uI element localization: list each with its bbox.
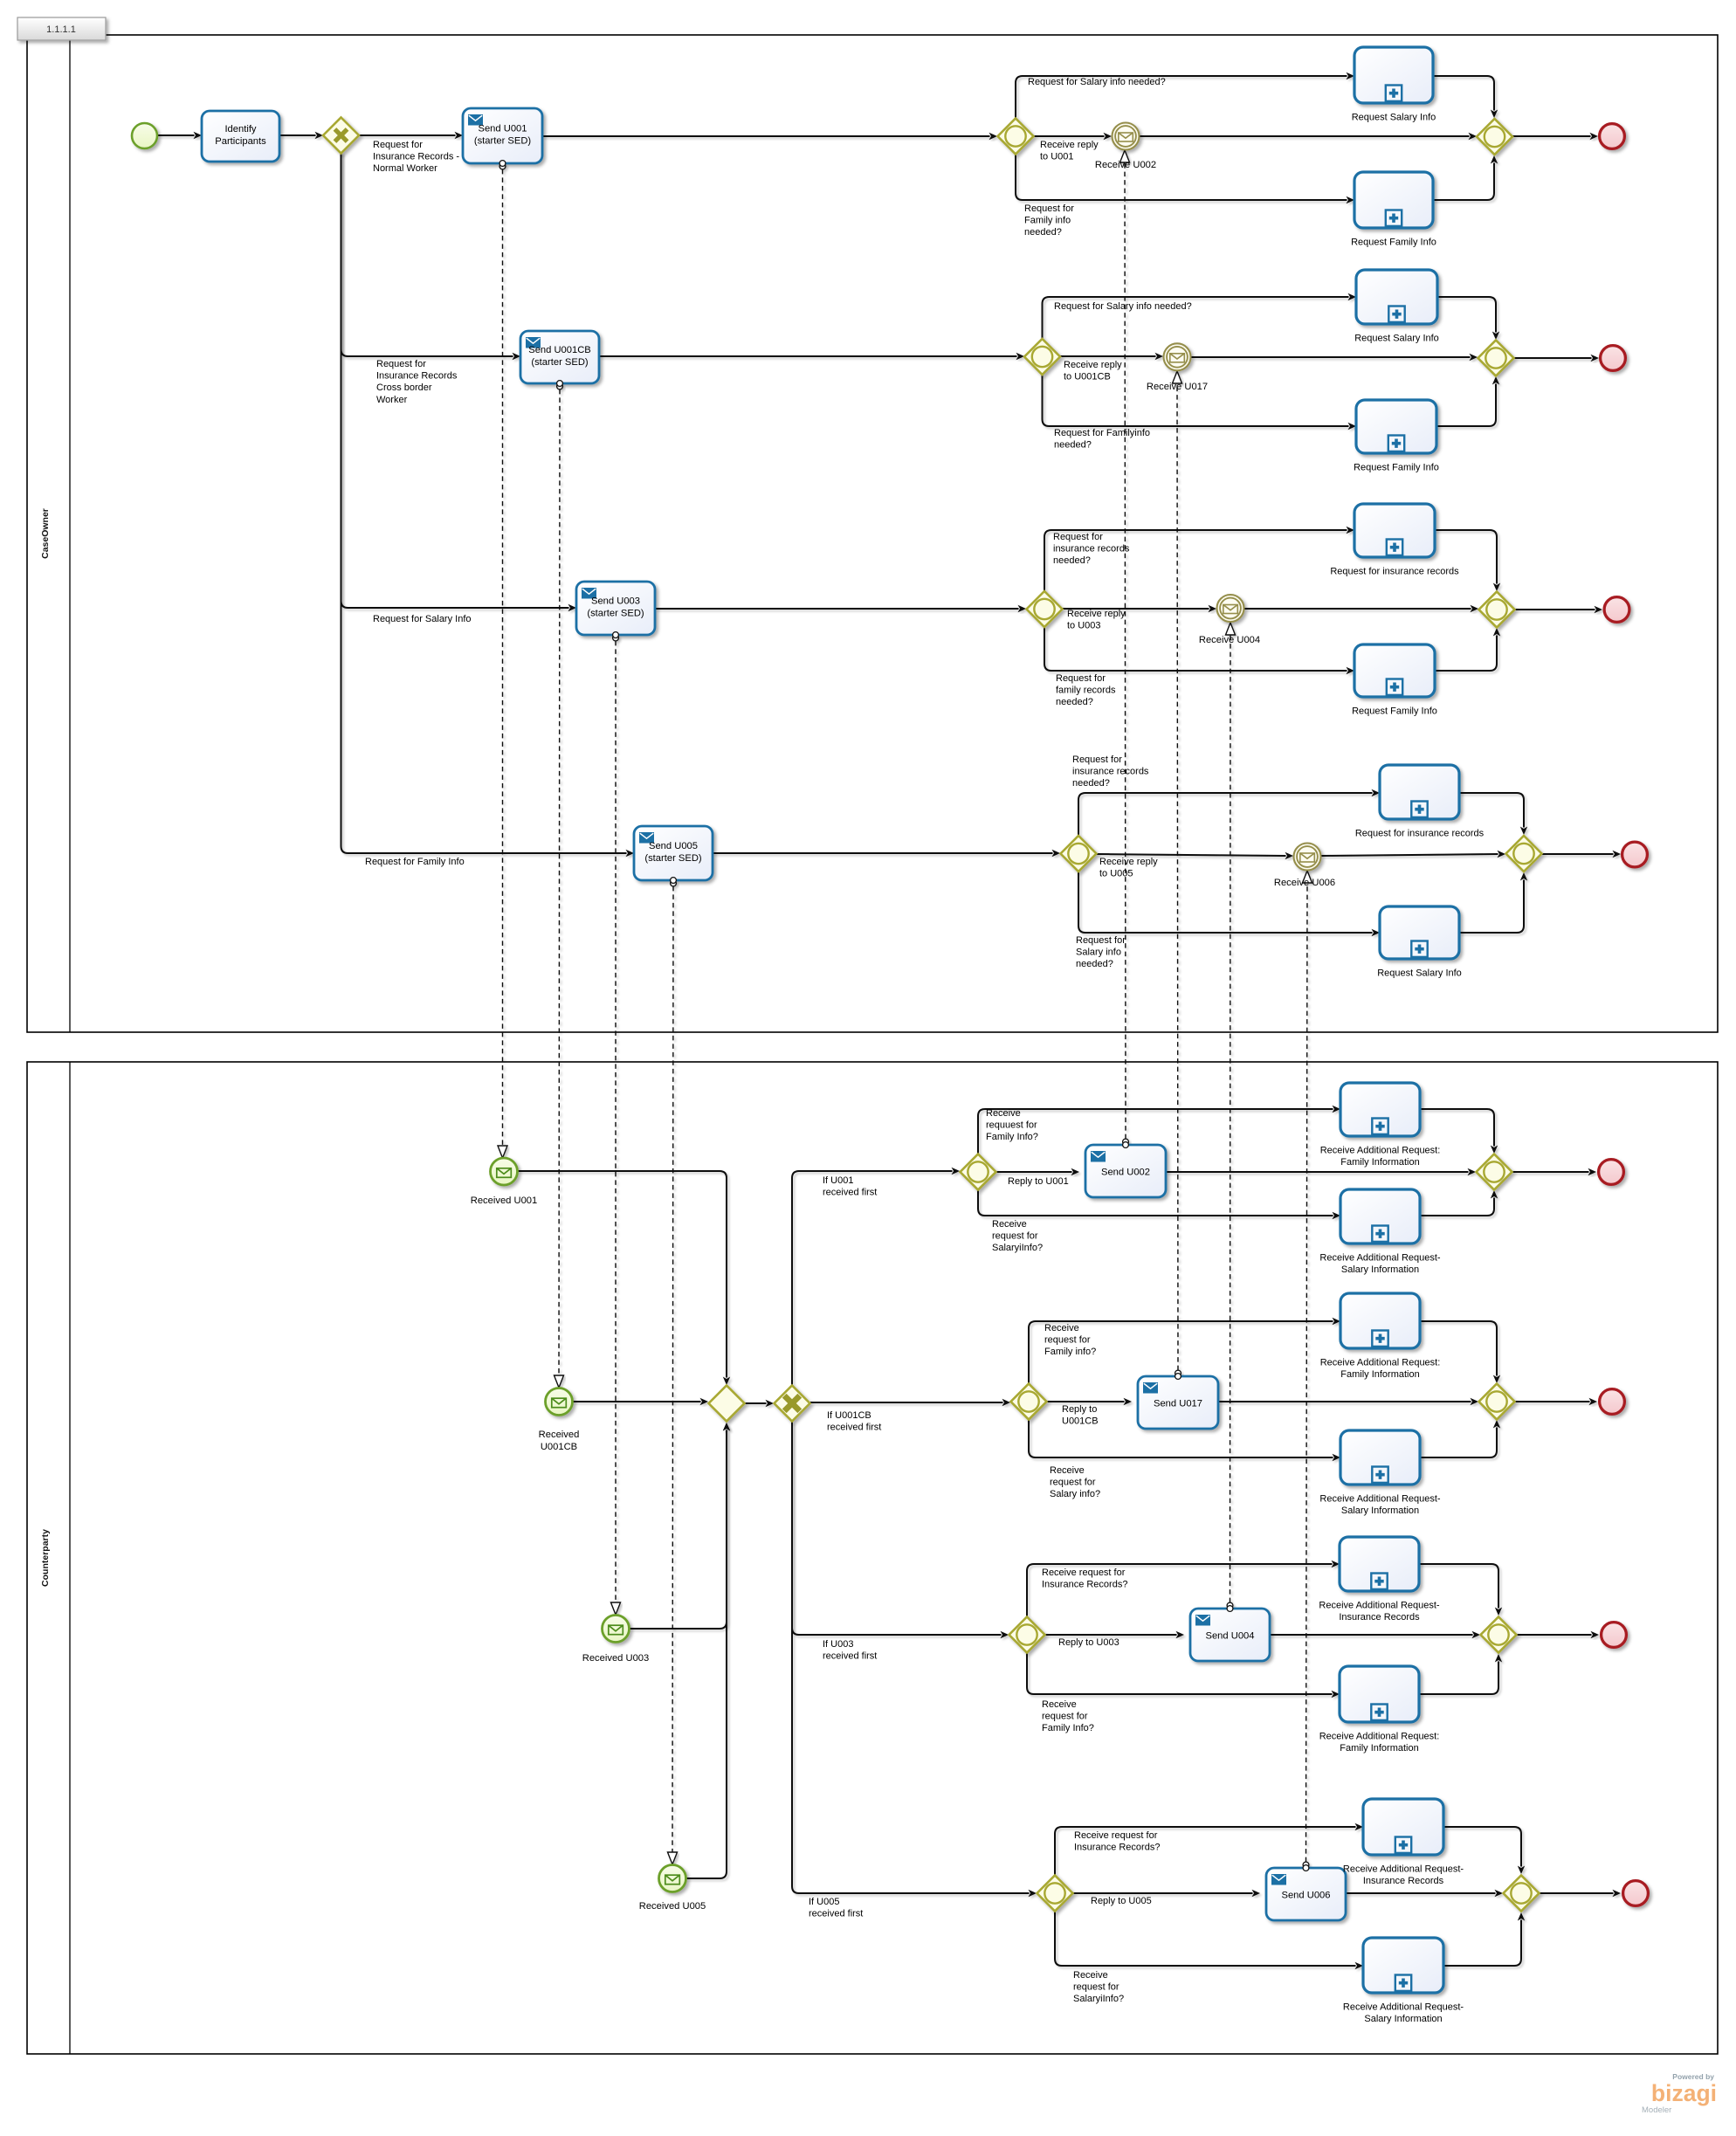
svg-text:Receive request for: Receive request for — [1042, 1568, 1126, 1578]
end event end b4 — [1623, 1881, 1649, 1906]
svg-text:Identify: Identify — [224, 124, 256, 134]
svg-text:Insurance Records: Insurance Records — [376, 371, 458, 382]
svg-text:Reply to U001: Reply to U001 — [1008, 1176, 1069, 1187]
sub-process Receive Additional Request Salary Information b4 — [1363, 1938, 1443, 1993]
svg-text:Family Information: Family Information — [1340, 1743, 1418, 1754]
svg-text:Salary info: Salary info — [1076, 947, 1121, 958]
svg-text:Receive U004: Receive U004 — [1199, 635, 1260, 645]
wire GE4 down branch — [1055, 1912, 1363, 1969]
wire gateway to Send U001 — [359, 132, 463, 139]
label Request for family records needed? row3 — [1056, 673, 1116, 707]
gateway merge b1 (o) — [1477, 1154, 1512, 1190]
wire branch Family info row1 — [1016, 155, 1354, 203]
svg-text:Request for: Request for — [1056, 673, 1106, 684]
svg-text:Receive: Receive — [986, 1108, 1021, 1119]
svg-text:U001CB: U001CB — [1062, 1416, 1099, 1427]
label If U003 received first — [823, 1639, 877, 1662]
svg-text:Salary Information: Salary Information — [1341, 1264, 1419, 1275]
svg-text:Family Information: Family Information — [1340, 1369, 1419, 1380]
svg-text:request for: request for — [1042, 1712, 1088, 1722]
label Request for Family Info — [365, 857, 465, 867]
sub-process Receive Additional Request Family Information b1 — [1340, 1083, 1420, 1136]
wire branch family row3 — [1044, 627, 1354, 674]
svg-text:to U001CB: to U001CB — [1064, 372, 1111, 382]
wire sub b3a to merge — [1419, 1564, 1502, 1616]
sub-process Request Family Info row1 — [1354, 172, 1433, 228]
wire branch insurance row3 — [1044, 527, 1354, 591]
wire Request Salary to merge row4 — [1459, 872, 1527, 933]
wire GE2 up branch — [1029, 1318, 1340, 1383]
wire merge row4 to end — [1542, 851, 1621, 858]
label Receive reply to U001 — [1040, 140, 1099, 162]
svg-text:Receive Additional Request-: Receive Additional Request- — [1319, 1253, 1441, 1264]
svg-text:Family info?: Family info? — [1044, 1347, 1096, 1357]
wire GE1 down branch — [978, 1190, 1340, 1219]
svg-text:Insurance Records?: Insurance Records? — [1042, 1580, 1127, 1590]
svg-text:Participants: Participants — [215, 136, 266, 147]
sub-process Request Salary Info row2 — [1356, 270, 1437, 324]
svg-text:Receive reply: Receive reply — [1099, 857, 1158, 867]
svg-text:needed?: needed? — [1072, 778, 1110, 789]
svg-text:Request Family Info: Request Family Info — [1351, 238, 1436, 248]
wire Send U001 to inclusive gateway — [542, 133, 997, 140]
svg-text:Received U005: Received U005 — [639, 1901, 706, 1912]
label Receive U002 — [1095, 160, 1156, 170]
svg-text:Modeler: Modeler — [1642, 2105, 1671, 2115]
svg-text:Receive: Receive — [992, 1219, 1027, 1230]
sub-process Request Family Info row3 — [1354, 644, 1435, 697]
svg-text:Receive Additional Request-: Receive Additional Request- — [1343, 2002, 1464, 2013]
wire Request insurance to merge row4 — [1459, 793, 1527, 835]
label Receive reply to U001CB — [1064, 360, 1122, 382]
wire GE4 up branch — [1055, 1823, 1363, 1875]
wire merge b2 to end — [1515, 1398, 1597, 1405]
svg-text:Request for Salary Info: Request for Salary Info — [373, 614, 472, 624]
svg-text:Request Salary Info: Request Salary Info — [1354, 334, 1439, 344]
wire sub b2b to merge — [1420, 1420, 1500, 1457]
svg-text:needed?: needed? — [1054, 440, 1092, 451]
wire exclusive to row2 event gateway — [810, 1399, 1010, 1406]
svg-text:Request Family Info: Request Family Info — [1352, 706, 1437, 717]
svg-text:Receive Additional Request:: Receive Additional Request: — [1319, 1732, 1440, 1742]
svg-text:SalaryiInfo?: SalaryiInfo? — [992, 1243, 1043, 1253]
wire Receive U017 to merge row2 — [1191, 354, 1478, 361]
label Request for Insurance Records - Normal Worker — [373, 140, 459, 174]
svg-text:Request Family Info: Request Family Info — [1354, 463, 1439, 473]
label for Request Salary Info row1 — [1352, 113, 1436, 123]
end event end b2 — [1600, 1389, 1625, 1415]
wire Request Salary Info to merge row1 — [1433, 76, 1498, 118]
message flow Send U017 to Receive U017 — [1173, 371, 1182, 1376]
svg-text:Request for Salary info needed: Request for Salary info needed? — [1054, 301, 1192, 312]
sub-process Request for insurance records row4 — [1380, 765, 1459, 819]
wire Send U004 to merge b3 — [1270, 1631, 1480, 1638]
wire Send U005 to inclusive gateway row4 — [713, 850, 1060, 857]
label Request for Salary info needed? row2 — [1054, 301, 1192, 312]
svg-text:Request for: Request for — [376, 359, 426, 369]
wire branch insurance row4 — [1078, 789, 1380, 836]
wire Send U006 to merge b4 — [1346, 1890, 1503, 1897]
wire merge row3 to end — [1515, 606, 1602, 613]
label Reply to U001CB — [1062, 1404, 1099, 1427]
label Request for insurance records needed? row3 — [1053, 532, 1130, 566]
label Received U001CB — [539, 1430, 580, 1452]
message start event Received U005 — [659, 1865, 686, 1892]
svg-text:received first: received first — [827, 1423, 881, 1433]
gateway inclusive row1 merge (o) — [1477, 119, 1512, 155]
label for Request for insurance records row4 — [1355, 829, 1485, 839]
sub-process Receive Additional Request Insurance Records b3 — [1340, 1537, 1419, 1591]
svg-text:If U005: If U005 — [809, 1897, 839, 1907]
gateway inclusive row2 split (o) — [1024, 339, 1060, 375]
svg-text:Salary info?: Salary info? — [1050, 1489, 1100, 1499]
svg-text:Request for insurance records: Request for insurance records — [1355, 829, 1485, 839]
label Receive request for Salary info? b2 — [1050, 1465, 1100, 1499]
wire gateway to Receive U017 — [1060, 353, 1163, 360]
svg-text:(starter SED): (starter SED) — [474, 136, 532, 147]
svg-text:to U005: to U005 — [1099, 869, 1133, 879]
sub-process Request for insurance records row3 — [1354, 504, 1435, 557]
wire merge row2 to end — [1514, 355, 1599, 362]
label Received U005 — [639, 1901, 706, 1912]
svg-text:Receive: Receive — [1042, 1699, 1077, 1710]
svg-text:Receive U002: Receive U002 — [1095, 160, 1156, 170]
svg-text:Receive U017: Receive U017 — [1147, 382, 1208, 392]
sub-process Request Family Info row2 — [1356, 400, 1436, 453]
svg-text:Normal Worker: Normal Worker — [373, 163, 437, 174]
label for Receive Additional Request Family Information b3 — [1319, 1732, 1440, 1754]
end event end row3 — [1604, 597, 1629, 623]
label Receive request for SalaryiInfo? b1 — [992, 1219, 1043, 1253]
svg-text:Request for: Request for — [1076, 935, 1126, 946]
wire sub b4a to merge — [1443, 1827, 1525, 1874]
svg-text:Receive: Receive — [1050, 1465, 1085, 1476]
gateway inclusive row4 split (o) — [1061, 836, 1097, 872]
diagram tab 1.1.1.1 — [17, 17, 106, 40]
end event end b3 — [1602, 1623, 1627, 1648]
svg-text:(starter SED): (starter SED) — [644, 853, 702, 864]
svg-text:Request Salary Info: Request Salary Info — [1352, 113, 1436, 123]
label Request for Salary info needed? row1 — [1028, 77, 1166, 87]
gateway merge b2 (o) — [1479, 1384, 1515, 1420]
sub-process Request Salary Info row4 — [1380, 906, 1459, 959]
svg-text:Insurance Records -: Insurance Records - — [373, 152, 459, 162]
message flow Send U003 to Received U003 — [611, 635, 621, 1615]
wire gateway to Send U001CB — [341, 153, 521, 360]
label Reply to U003 — [1058, 1637, 1119, 1648]
svg-text:needed?: needed? — [1056, 697, 1093, 707]
gateway GE2 (o) — [1011, 1384, 1047, 1420]
svg-text:Send U005: Send U005 — [649, 841, 698, 851]
svg-text:If U001: If U001 — [823, 1175, 853, 1186]
svg-text:received first: received first — [823, 1651, 877, 1662]
svg-text:Send U002: Send U002 — [1101, 1168, 1150, 1178]
svg-text:request for: request for — [1073, 1982, 1119, 1993]
label for Request Family Info row1 — [1351, 238, 1436, 248]
wire GE2 down branch — [1029, 1420, 1340, 1461]
svg-text:Insurance Records?: Insurance Records? — [1074, 1843, 1160, 1853]
svg-text:request for: request for — [1050, 1478, 1096, 1488]
bizagi logo — [1642, 2072, 1717, 2115]
svg-text:Family Information: Family Information — [1340, 1157, 1419, 1168]
gateway split GX1 (x) — [323, 118, 359, 154]
gateway inclusive row3 split (o) — [1027, 591, 1063, 627]
wire sub b4b to merge — [1443, 1912, 1525, 1966]
wire GE1 up branch — [978, 1106, 1340, 1154]
label for Receive Additional Request Family Information b1 — [1320, 1146, 1441, 1168]
svg-text:Receive Additional Request:: Receive Additional Request: — [1320, 1146, 1441, 1156]
wire sub b2a to merge — [1420, 1321, 1500, 1383]
label Request for Familyinfo needed? row2 — [1054, 428, 1150, 451]
wire GE3 to Send U004 — [1045, 1631, 1184, 1638]
wire Request Family Info to merge row1 — [1433, 155, 1498, 200]
task Send U001 (starter SED) — [463, 108, 542, 163]
message start event Received U001CB — [546, 1388, 573, 1416]
svg-text:needed?: needed? — [1053, 555, 1091, 566]
svg-text:(starter SED): (starter SED) — [531, 357, 589, 368]
task Send U017 — [1138, 1376, 1218, 1429]
message flow Send U006 to Receive U006 — [1303, 871, 1312, 1868]
wire merge b4 to end — [1540, 1890, 1621, 1897]
svg-text:Request for: Request for — [1024, 203, 1074, 214]
wire Identify Participants to split gateway — [279, 132, 323, 139]
svg-text:If U001CB: If U001CB — [827, 1410, 871, 1421]
svg-text:CaseOwner: CaseOwner — [40, 508, 51, 559]
wire gateway to Receive U006 — [1097, 852, 1293, 859]
label If U001CB received first — [827, 1410, 881, 1433]
wire GE1 to Send U002 — [996, 1168, 1079, 1175]
svg-text:Request for: Request for — [373, 140, 423, 150]
wire GE3 up branch — [1027, 1561, 1340, 1616]
svg-text:Insurance Records: Insurance Records — [1363, 1876, 1444, 1886]
label Request for insurance records needed? row4 — [1072, 754, 1149, 789]
svg-text:to U001: to U001 — [1040, 152, 1074, 162]
label Request for Salary info needed? row4 — [1076, 935, 1126, 969]
wire gateway to Send U005 — [341, 153, 635, 857]
label for Request for insurance records row3 — [1330, 567, 1459, 577]
label Receive U006 — [1274, 878, 1335, 888]
gateway inclusive row4 merge (o) — [1506, 836, 1542, 872]
wire Request insurance to merge row3 — [1435, 530, 1500, 591]
svg-text:Receive reply: Receive reply — [1040, 140, 1099, 150]
wire sub b1b to merge — [1420, 1190, 1498, 1216]
svg-text:insurance records: insurance records — [1072, 767, 1149, 777]
intermediate message event Receive U004 — [1217, 595, 1244, 622]
svg-text:Request Salary Info: Request Salary Info — [1377, 968, 1462, 979]
sub-process Receive Additional Request Insurance Records b4 — [1363, 1799, 1443, 1855]
wire branch salary row4 — [1078, 872, 1380, 936]
svg-text:Receive: Receive — [1073, 1970, 1108, 1981]
label Receive reply to U003 — [1067, 609, 1126, 631]
wire Request Family Info to merge row2 — [1436, 376, 1499, 426]
intermediate message event Receive U006 — [1294, 844, 1321, 871]
wire gateway to Receive U002 — [1034, 133, 1112, 140]
svg-text:Reply to U005: Reply to U005 — [1091, 1896, 1152, 1906]
label Receive reply to U005 — [1099, 857, 1158, 879]
sub-process Request Salary Info row1 — [1354, 47, 1433, 103]
wire Request Salary Info to merge row2 — [1437, 297, 1499, 340]
end event end row1 — [1600, 124, 1625, 149]
label for Request Family Info row2 — [1354, 463, 1439, 473]
sub-process Receive Additional Request Salary Information b2 — [1340, 1430, 1420, 1485]
gateway merge b3 (o) — [1481, 1617, 1517, 1653]
label Received U001 — [471, 1195, 538, 1206]
svg-text:Receive reply: Receive reply — [1064, 360, 1122, 370]
sub-process Receive Additional Request Family Information b3 — [1340, 1666, 1419, 1722]
wire exclusive to row4 event gateway — [792, 1422, 1037, 1897]
svg-text:Received U001: Received U001 — [471, 1195, 538, 1206]
svg-text:Request for insurance records: Request for insurance records — [1330, 567, 1459, 577]
svg-text:Receive Additional Request-: Receive Additional Request- — [1319, 1494, 1441, 1505]
label Receive request for Insurance Records? b4 — [1074, 1830, 1160, 1853]
pool Counterparty — [27, 1062, 1718, 2054]
label for Receive Additional Request Salary Information b2 — [1319, 1494, 1441, 1517]
svg-text:insurance records: insurance records — [1053, 544, 1130, 555]
end event end row4 — [1622, 842, 1648, 867]
svg-text:Family info: Family info — [1024, 216, 1071, 226]
task Send U002 — [1085, 1145, 1166, 1197]
svg-text:Cross border: Cross border — [376, 382, 432, 393]
svg-text:Receive reply: Receive reply — [1067, 609, 1126, 619]
label Received U003 — [582, 1653, 650, 1664]
svg-text:Send U001: Send U001 — [479, 124, 527, 134]
wire Send U002 to merge b1 — [1166, 1168, 1476, 1175]
label for Receive Additional Request Insurance Records b3 — [1319, 1601, 1440, 1623]
wire Send U001CB to inclusive gateway row2 — [599, 353, 1024, 360]
wire GE2 to Send U017 — [1047, 1398, 1132, 1405]
task Send U005 (starter SED) — [634, 826, 713, 880]
svg-text:received first: received first — [809, 1909, 863, 1919]
svg-text:Worker: Worker — [376, 395, 408, 405]
svg-text:Receive Additional Request-: Receive Additional Request- — [1343, 1864, 1464, 1875]
wire branch Family info row2 — [1043, 375, 1357, 430]
svg-text:requuest for: requuest for — [986, 1120, 1037, 1131]
wire GE4 to Send U006 — [1073, 1890, 1260, 1897]
wire sub b3b to merge — [1419, 1654, 1502, 1694]
task Send U006 — [1266, 1868, 1346, 1920]
sub-process Receive Additional Request Family Information b2 — [1340, 1293, 1420, 1348]
intermediate message event Receive U017 — [1164, 343, 1191, 370]
svg-text:Receive Additional Request-: Receive Additional Request- — [1319, 1601, 1440, 1611]
label Receive U004 — [1199, 635, 1260, 645]
svg-text:Receive request for: Receive request for — [1074, 1830, 1158, 1841]
svg-text:Received: Received — [539, 1430, 580, 1440]
wire Receive U004 to merge row3 — [1244, 605, 1478, 612]
wire sub b1a to merge — [1420, 1109, 1498, 1154]
svg-text:Counterparty: Counterparty — [40, 1529, 51, 1587]
label Receive request for SalaryiInfo? b4 — [1073, 1970, 1124, 2004]
gateway inclusive row3 merge (o) — [1479, 592, 1515, 628]
task Send U001CB (starter SED) — [520, 331, 599, 383]
wire gateway to Send U003 — [341, 153, 577, 611]
message flow Send U001CB to Received U001CB — [555, 383, 564, 1388]
wire Request Family to merge row3 — [1435, 628, 1500, 671]
svg-text:Send U003: Send U003 — [591, 596, 640, 607]
svg-text:U001CB: U001CB — [541, 1442, 577, 1452]
svg-text:Insurance Records: Insurance Records — [1339, 1612, 1420, 1623]
svg-text:Send U004: Send U004 — [1206, 1631, 1255, 1642]
svg-text:request for: request for — [992, 1231, 1038, 1242]
wire gateway to Receive U004 — [1063, 605, 1216, 612]
svg-text:Send U001CB: Send U001CB — [528, 345, 591, 355]
label Receive request for Family Info? b3 — [1042, 1699, 1094, 1733]
gateway inclusive row1 split (o) — [998, 119, 1034, 155]
label for Receive Additional Request Salary Information b1 — [1319, 1253, 1441, 1276]
label Receive U017 — [1147, 382, 1208, 392]
label for Receive Additional Request Salary Information b4 — [1343, 2002, 1464, 2025]
wire merge row1 to end — [1512, 133, 1598, 140]
wire start to Identify Participants — [157, 132, 202, 139]
svg-text:Receive: Receive — [1044, 1323, 1079, 1333]
wire Send U017 to merge b2 — [1218, 1398, 1478, 1405]
wire Received U001 to merge gateway — [518, 1171, 730, 1385]
svg-text:Reply to: Reply to — [1062, 1404, 1097, 1415]
gateway GE4 (o) — [1037, 1876, 1073, 1912]
message start event Received U001 — [491, 1158, 518, 1185]
svg-text:Request for Family Info: Request for Family Info — [365, 857, 465, 867]
gateway GE1 (o) — [961, 1154, 996, 1190]
wire merge b3 to end — [1517, 1631, 1599, 1638]
label for Request Salary Info row2 — [1354, 334, 1439, 344]
label Request for Insurance Records Cross border Worker — [376, 359, 458, 405]
message start event Received U003 — [603, 1616, 630, 1643]
svg-text:Request for: Request for — [1053, 532, 1103, 542]
svg-text:Request for Salary info needed: Request for Salary info needed? — [1028, 77, 1166, 87]
svg-text:Received U003: Received U003 — [582, 1653, 650, 1664]
sub-process Receive Additional Request Salary Information b1 — [1340, 1189, 1420, 1244]
label Receive requuest for Family Info? — [986, 1108, 1038, 1142]
message flow Send U005 to Received U005 — [668, 880, 678, 1864]
label Receive request for Family info? b2 — [1044, 1323, 1096, 1357]
label for Receive Additional Request Family Information b2 — [1320, 1358, 1441, 1381]
gateway merge b4 (o) — [1504, 1876, 1540, 1912]
wire GE3 down branch — [1027, 1653, 1340, 1698]
wire Received U003 to merge gateway — [630, 1423, 730, 1629]
svg-text:Reply to U003: Reply to U003 — [1058, 1637, 1119, 1648]
wire Received U001CB to merge gateway — [573, 1398, 708, 1405]
svg-text:SalaryiInfo?: SalaryiInfo? — [1073, 1994, 1124, 2004]
wire exclusive to row1 event gateway — [792, 1168, 960, 1385]
task Send U004 — [1190, 1609, 1270, 1661]
label Receive request for Insurance Records? b3 — [1042, 1568, 1127, 1590]
svg-text:Request for Familyinfo: Request for Familyinfo — [1054, 428, 1150, 438]
svg-text:to U003: to U003 — [1067, 621, 1101, 631]
svg-text:Family Info?: Family Info? — [986, 1132, 1038, 1142]
svg-text:Receive U006: Receive U006 — [1274, 878, 1335, 888]
wire Receive U002 to merge row1 — [1140, 133, 1477, 140]
label If U005 received first — [809, 1897, 863, 1919]
svg-text:Receive Additional Request:: Receive Additional Request: — [1320, 1358, 1441, 1368]
svg-text:needed?: needed? — [1024, 227, 1062, 238]
gateway merge received (plain) — [709, 1386, 745, 1422]
wire merge b1 to end — [1512, 1168, 1596, 1175]
wire exclusive to row3 event gateway — [792, 1422, 1009, 1638]
end event end b1 — [1599, 1160, 1624, 1185]
svg-text:received first: received first — [823, 1188, 877, 1198]
label for Request Salary Info row4 — [1377, 968, 1462, 979]
gateway inclusive row2 merge (o) — [1478, 341, 1514, 376]
gateway GE3 (o) — [1009, 1617, 1045, 1653]
svg-text:1.1.1.1: 1.1.1.1 — [46, 24, 76, 35]
wire branch Salary info row1 — [1016, 72, 1354, 118]
label for Receive Additional Request Insurance Records b4 — [1343, 1864, 1464, 1887]
svg-text:request for: request for — [1044, 1335, 1091, 1346]
wire branch Salary info row2 — [1043, 293, 1357, 339]
message flow Send U004 to Receive U004 — [1226, 623, 1236, 1609]
label Reply to U001 — [1008, 1176, 1069, 1187]
svg-text:Family Info?: Family Info? — [1042, 1723, 1094, 1733]
task Send U003 (starter SED) — [576, 582, 655, 635]
